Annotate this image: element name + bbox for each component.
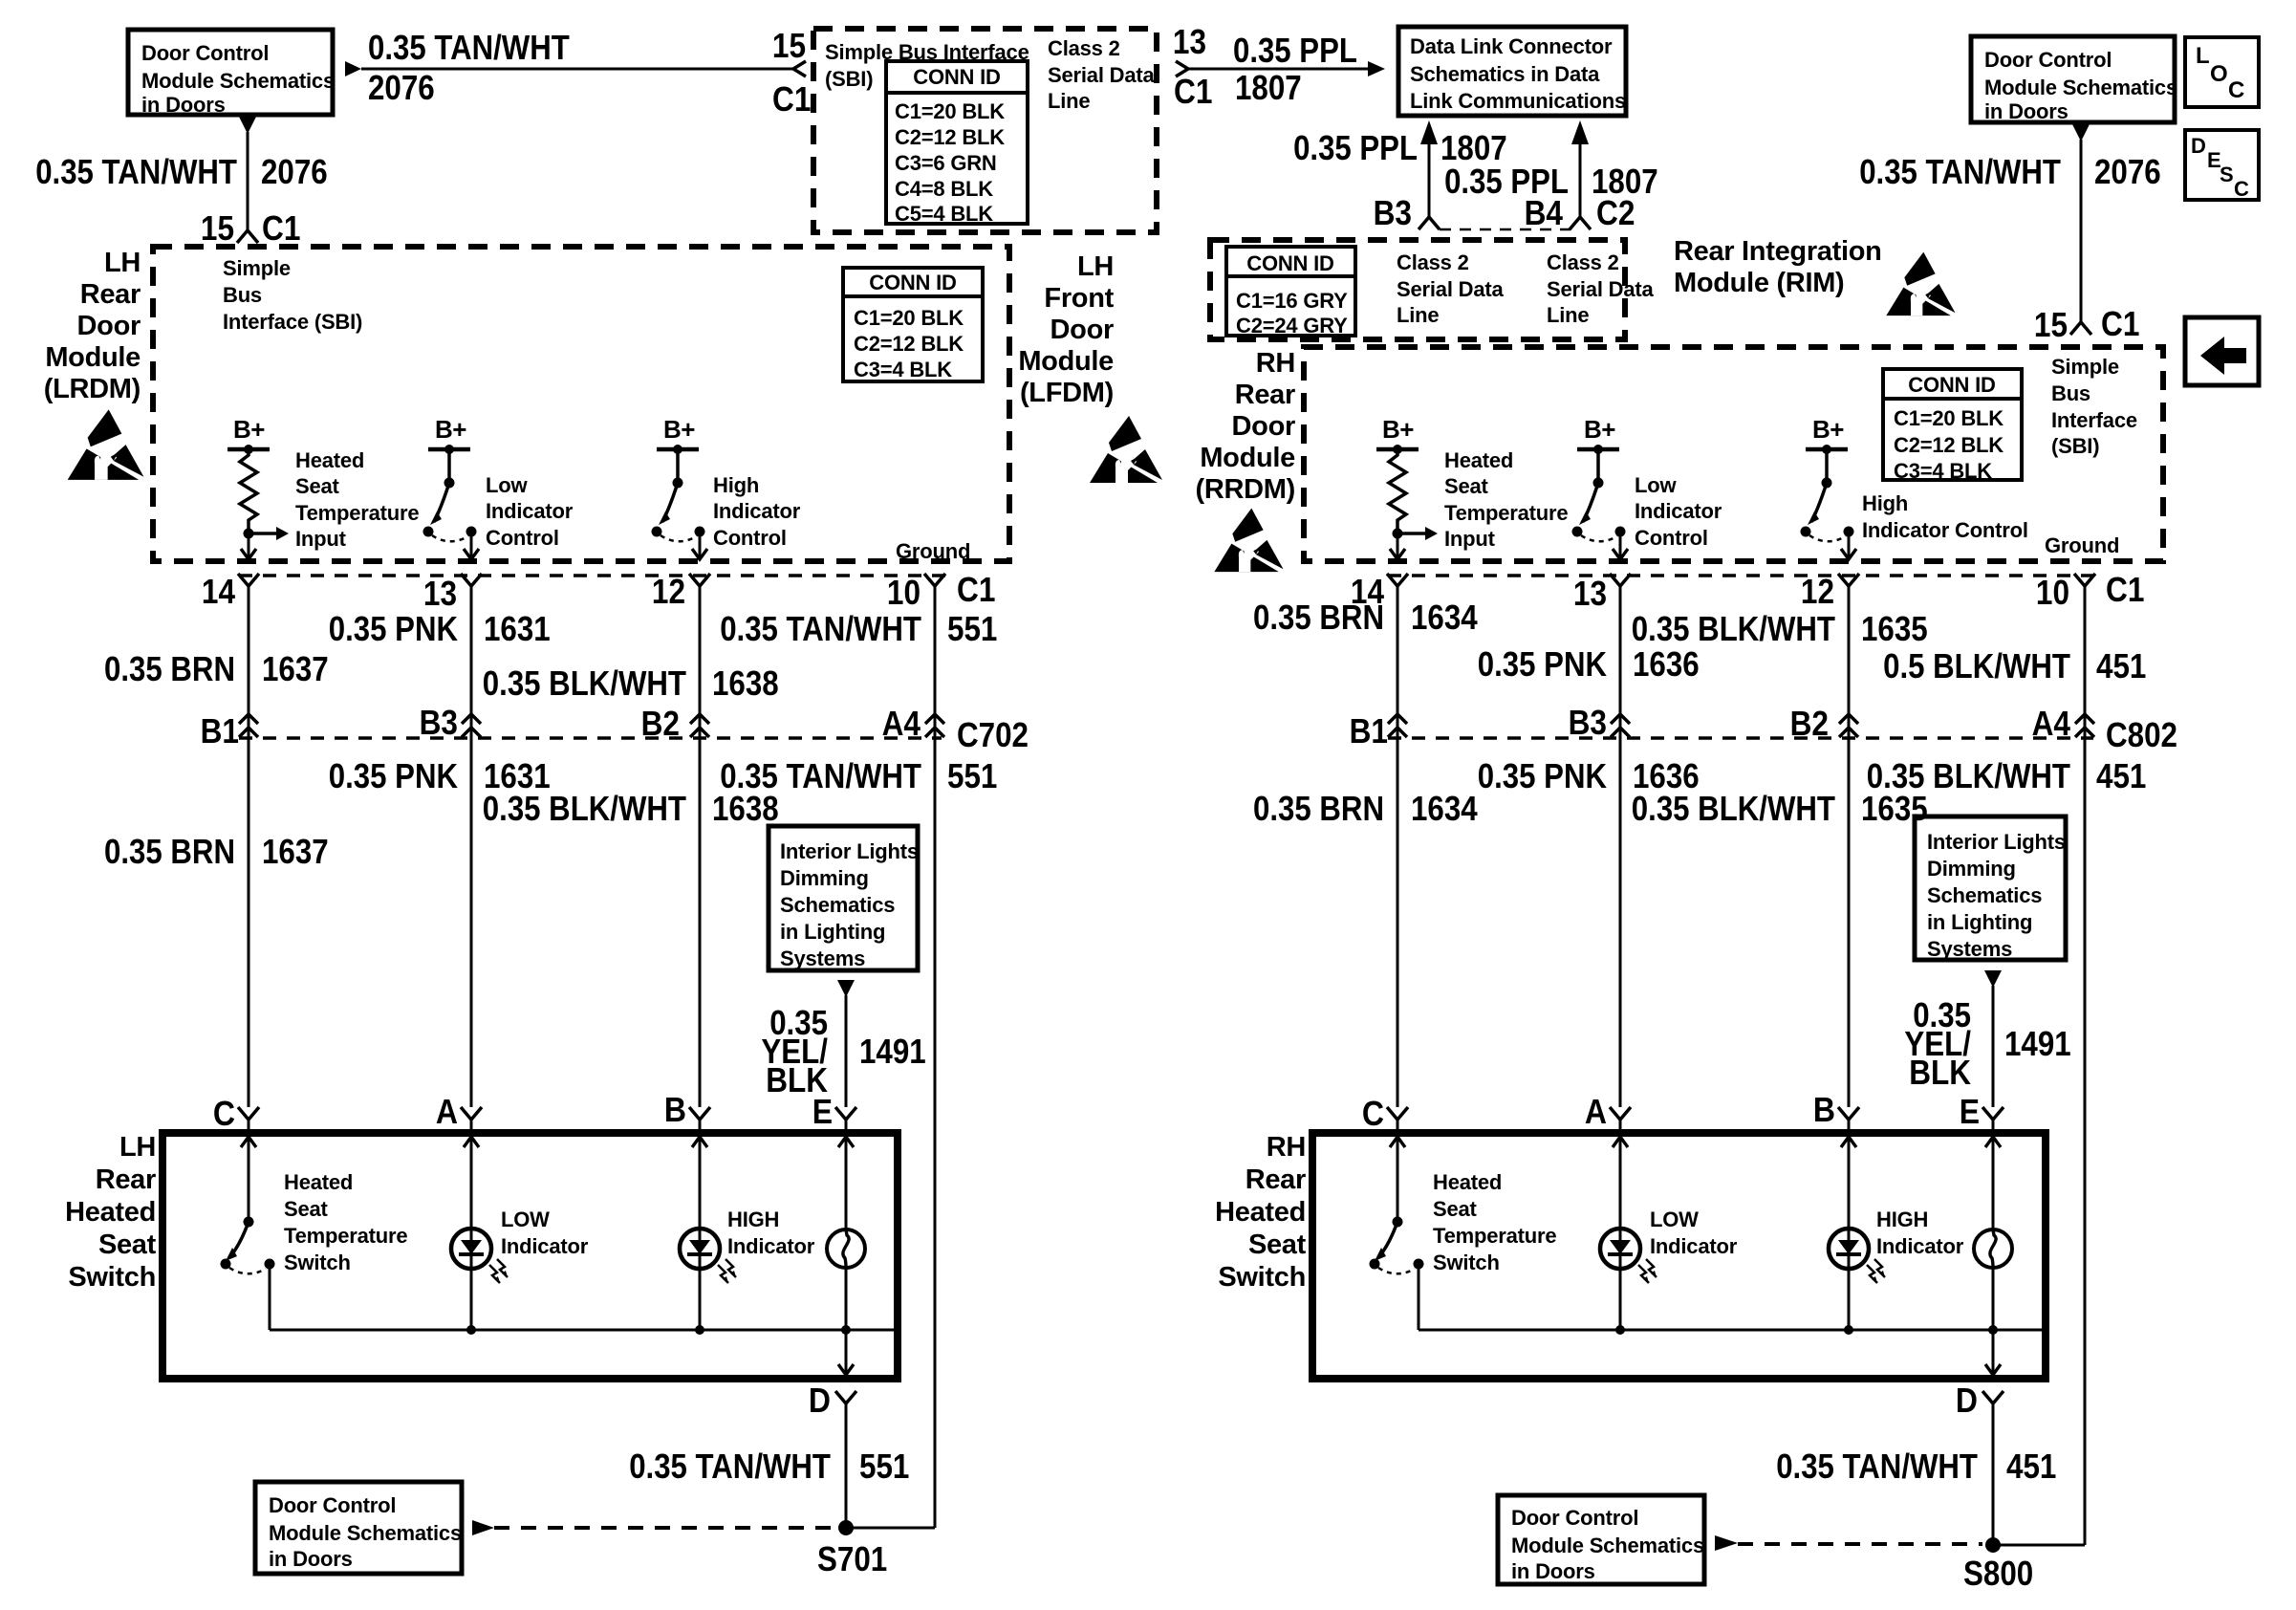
svg-text:0.35 TAN/WHT: 0.35 TAN/WHT [629, 1447, 831, 1486]
wire 1635 (pin12R to B) [1848, 586, 1851, 1107]
svg-text:(LRDM): (LRDM) [44, 374, 141, 404]
svg-text:0.35 PNK: 0.35 PNK [329, 756, 458, 795]
svg-text:(LFDM): (LFDM) [1020, 378, 1114, 408]
connector A4 (C702) [925, 714, 944, 724]
box: RH Rear Heated Seat Switch [1312, 1133, 2046, 1379]
connector pin 14 (RRDM C1) [1387, 574, 1408, 586]
LED HIGH indicator (LH) [699, 1229, 702, 1269]
svg-text:CONN ID: CONN ID [1908, 373, 1996, 397]
pin arrow A (into LH switch) [464, 1137, 479, 1147]
svg-text:in Doors: in Doors [1511, 1559, 1595, 1583]
connector line RIM (B3-B4) [1440, 228, 1570, 231]
svg-text:C2=24 GRY: C2=24 GRY [1236, 314, 1348, 337]
svg-text:Heated: Heated [1215, 1197, 1306, 1228]
svg-text:Temperature: Temperature [284, 1224, 407, 1248]
svg-text:C: C [2234, 177, 2249, 201]
connector pin 13 (LRDM C1) [461, 574, 482, 586]
icon box LOC [2185, 37, 2259, 107]
svg-text:Control: Control [1635, 526, 1708, 550]
svg-text:A: A [1585, 1092, 1607, 1131]
svg-text:Seat: Seat [1248, 1229, 1307, 1260]
svg-text:Door: Door [77, 311, 141, 341]
svg-text:Indicator: Indicator [727, 1234, 815, 1258]
svg-text:B: B [1813, 1090, 1835, 1129]
svg-text:451: 451 [2096, 646, 2146, 685]
LED LOW indicator (LH) [470, 1229, 473, 1269]
svg-text:O: O [2210, 61, 2228, 87]
svg-text:0.35 PPL: 0.35 PPL [1233, 31, 1357, 70]
svg-text:CONN ID: CONN ID [1246, 251, 1334, 275]
svg-text:Switch: Switch [68, 1262, 156, 1293]
connector C1 pin 15 female (LRDM) [237, 230, 258, 243]
connector E (RH switch) [1982, 1107, 2004, 1120]
svg-text:15: 15 [201, 208, 234, 248]
wire 1807 horizontal [1188, 68, 1369, 71]
svg-text:Seat: Seat [295, 474, 340, 498]
svg-text:(SBI): (SBI) [2051, 434, 2099, 458]
svg-text:10: 10 [887, 573, 921, 612]
pin arrow E (into RH switch) [1985, 1137, 2001, 1147]
svg-text:Door: Door [1051, 315, 1114, 345]
svg-text:C: C [1362, 1094, 1384, 1133]
svg-text:Indicator: Indicator [1876, 1234, 1964, 1258]
svg-text:0.35 BLK/WHT: 0.35 BLK/WHT [1632, 609, 1835, 648]
svg-text:B4: B4 [1525, 193, 1563, 232]
svg-text:0.35 TAN/WHT: 0.35 TAN/WHT [368, 28, 570, 67]
thermal protector (LH) [827, 1229, 865, 1268]
pin arrow C (into LH switch) [241, 1137, 256, 1147]
module: Rear Integration Module (RIM) dashed box [1210, 240, 1625, 339]
svg-text:Module Schematics: Module Schematics [141, 69, 335, 93]
pin arrow A (into RH switch) [1613, 1137, 1628, 1147]
svg-text:2076: 2076 [368, 68, 435, 107]
svg-text:Indicator Control: Indicator Control [1862, 518, 2028, 542]
svg-text:Class 2: Class 2 [1547, 250, 1619, 274]
svg-text:in Lighting: in Lighting [780, 920, 885, 944]
wire D drop (RH) [1992, 1330, 1995, 1378]
svg-text:C1: C1 [2101, 304, 2139, 343]
connector pin 13 (RRDM C1) [1610, 574, 1631, 586]
svg-text:S: S [2220, 163, 2233, 186]
svg-text:551: 551 [947, 609, 997, 648]
arrow into Data Link Connector box [1368, 61, 1385, 76]
svg-text:Interior Lights: Interior Lights [780, 839, 919, 863]
svg-text:Line: Line [1397, 303, 1439, 327]
table CONN ID (LRDM) [843, 268, 983, 381]
connector B3 (C702) [462, 714, 481, 724]
table CONN ID (SBI) [886, 61, 1028, 224]
svg-text:C3=4 BLK: C3=4 BLK [854, 358, 952, 381]
connector pin 12 (RRDM C1) [1838, 574, 1859, 586]
svg-text:LH: LH [1077, 251, 1114, 282]
svg-text:Rear: Rear [96, 1164, 156, 1195]
module: LH Rear Door Module (LRDM) dashed box [153, 247, 1009, 561]
svg-text:551: 551 [947, 756, 997, 795]
svg-text:Dimming: Dimming [780, 866, 869, 890]
svg-text:0.35 BLK/WHT: 0.35 BLK/WHT [483, 789, 686, 828]
svg-text:Serial Data: Serial Data [1048, 63, 1155, 87]
svg-text:(SBI): (SBI) [825, 67, 873, 91]
svg-text:B3: B3 [1374, 193, 1412, 232]
svg-text:C3=4 BLK: C3=4 BLK [1894, 459, 1992, 483]
wire switch bus (RH) [1419, 1329, 2042, 1332]
connector pin 12 (LRDM C1) [689, 574, 710, 586]
svg-text:B3: B3 [420, 703, 458, 742]
switch: heated seat temperature switch (LH) [244, 1217, 254, 1228]
box: Door Control Module Schematics in Doors (bottom left) [255, 1482, 462, 1574]
dashed wire to S701 [494, 1526, 835, 1530]
wire 451 (pin10R to S800) [2084, 586, 2087, 1545]
svg-text:1637: 1637 [262, 832, 329, 871]
connector B (LH switch) [689, 1107, 710, 1120]
connector line C1 (RRDM pins) [1388, 574, 2095, 577]
svg-text:B2: B2 [1790, 704, 1829, 743]
svg-text:CONN ID: CONN ID [869, 271, 957, 294]
wire 1638 (pin12 to B) [699, 586, 702, 1107]
svg-text:Dimming: Dimming [1927, 857, 2016, 881]
wire 1636 (pin13R to A) [1619, 586, 1622, 1107]
icon box left-arrow [2185, 317, 2259, 385]
svg-text:C2=12 BLK: C2=12 BLK [1894, 433, 2004, 457]
thermal protector (RH) [1974, 1229, 2012, 1268]
wire 1491 (left) [845, 995, 848, 1107]
svg-text:Door Control: Door Control [1511, 1506, 1638, 1530]
svg-text:C1: C1 [1174, 72, 1212, 111]
box: Interior Lights Dimming Schematics in Lighting Systems (left) [769, 826, 918, 970]
wire 1637 (pin14 to C) [248, 586, 250, 1107]
svg-text:Class 2: Class 2 [1048, 36, 1120, 60]
svg-text:Interior Lights: Interior Lights [1927, 830, 2066, 854]
wire C stub [248, 1120, 250, 1133]
svg-text:0.5 BLK/WHT: 0.5 BLK/WHT [1883, 646, 2070, 685]
svg-text:0.35 BLK/WHT: 0.35 BLK/WHT [483, 664, 686, 703]
svg-text:10: 10 [2036, 573, 2069, 612]
pin arrow B (into RH switch) [1841, 1137, 1856, 1147]
connector C1 pin 13 female (SBI right) [1176, 61, 1188, 76]
wire 1491 (right) [1992, 986, 1995, 1107]
svg-text:C1=20 BLK: C1=20 BLK [895, 99, 1005, 123]
svg-text:B3: B3 [1569, 703, 1607, 742]
svg-text:C1: C1 [772, 79, 811, 119]
svg-text:C2=12 BLK: C2=12 BLK [895, 125, 1005, 149]
table CONN ID (RIM) [1226, 247, 1355, 336]
svg-text:Seat: Seat [1433, 1197, 1478, 1221]
wire 451 return (right of RH switch) [1993, 1544, 2085, 1547]
svg-text:0.35 TAN/WHT: 0.35 TAN/WHT [1859, 152, 2061, 191]
svg-text:Bus: Bus [2051, 381, 2090, 405]
svg-text:B1: B1 [201, 711, 239, 751]
svg-text:Simple: Simple [223, 256, 291, 280]
svg-text:Heated: Heated [1444, 448, 1513, 472]
svg-text:0.35 BRN: 0.35 BRN [1253, 598, 1384, 637]
module: RH Rear Door Module (RRDM) dashed box [1304, 347, 2163, 561]
svg-text:C: C [2228, 77, 2244, 103]
ESD symbol (LRDM) [68, 409, 144, 480]
wire 551 to S701 [845, 1403, 848, 1528]
svg-text:B+: B+ [435, 415, 466, 444]
wire B stub (R) [1848, 1120, 1851, 1133]
svg-text:Input: Input [295, 527, 347, 551]
svg-text:Module Schematics: Module Schematics [1984, 76, 2177, 99]
wire 2076 vertical (right) [2080, 140, 2083, 321]
svg-text:Interface: Interface [2051, 408, 2137, 432]
svg-text:Switch: Switch [1433, 1251, 1500, 1274]
svg-text:1631: 1631 [484, 609, 551, 648]
arrow into wire from right Door Control box [2072, 124, 2090, 141]
svg-text:C3=6 GRN: C3=6 GRN [895, 151, 997, 175]
svg-text:Module: Module [1018, 346, 1114, 377]
wire switch bus (LH) [270, 1329, 894, 1332]
connector B3 (C802) [1611, 714, 1630, 724]
svg-text:B+: B+ [233, 415, 265, 444]
svg-text:Heated: Heated [65, 1197, 156, 1228]
svg-text:RH: RH [1256, 348, 1295, 379]
arrow from Interior Lights box (left) [837, 980, 855, 997]
box: Door Control Module Schematics in Doors (top right) [1971, 36, 2175, 122]
box: Door Control Module Schematics in Doors (bottom right) [1498, 1495, 1704, 1584]
wire C stub (R) [1397, 1120, 1399, 1133]
svg-text:B+: B+ [1382, 415, 1414, 444]
svg-text:(RRDM): (RRDM) [1195, 474, 1295, 505]
connector D (LH switch) [835, 1391, 856, 1403]
svg-text:D: D [809, 1381, 831, 1420]
connector E (LH switch) [835, 1107, 856, 1120]
svg-text:B: B [664, 1090, 686, 1129]
svg-text:LH: LH [119, 1132, 156, 1163]
svg-text:LOW: LOW [501, 1207, 550, 1231]
svg-text:13: 13 [423, 574, 457, 613]
svg-text:RH: RH [1267, 1132, 1306, 1163]
svg-text:0.35 BRN: 0.35 BRN [104, 832, 235, 871]
svg-text:1638: 1638 [712, 789, 779, 828]
svg-text:Line: Line [1547, 303, 1589, 327]
svg-text:C1: C1 [957, 570, 995, 609]
svg-text:0.35 PNK: 0.35 PNK [329, 609, 458, 648]
connector C1 pin 15 female (RRDM) [2070, 322, 2091, 335]
svg-text:Module (RIM): Module (RIM) [1674, 268, 1844, 298]
LED LOW indicator (RH) [1619, 1229, 1622, 1269]
ESD symbol (LFDM) [1090, 416, 1162, 483]
pin arrow C (into RH switch) [1390, 1137, 1405, 1147]
svg-text:0.35 PNK: 0.35 PNK [1478, 756, 1607, 795]
svg-text:1637: 1637 [262, 649, 329, 688]
connector pin 10 (LRDM C1) [924, 574, 945, 586]
switch: heated seat temperature switch (RH) [1393, 1217, 1403, 1228]
svg-text:Schematics: Schematics [1927, 883, 2042, 907]
svg-text:Bus: Bus [223, 283, 262, 307]
svg-text:15: 15 [2034, 305, 2068, 344]
svg-text:1491: 1491 [2004, 1024, 2071, 1063]
svg-text:Ground: Ground [896, 539, 970, 563]
svg-text:Class 2: Class 2 [1397, 250, 1469, 274]
box: Data Link Connector Schematics in Data Link Communications [1398, 27, 1626, 116]
connector B1 (C702) [239, 714, 258, 724]
wire 2076 horizontal (to LRDM C1 pin 15) [361, 68, 793, 71]
svg-text:LH: LH [104, 248, 141, 278]
svg-text:S701: S701 [817, 1539, 887, 1578]
svg-text:1635: 1635 [1861, 609, 1928, 648]
svg-text:451: 451 [2006, 1447, 2056, 1486]
svg-text:C1=20 BLK: C1=20 BLK [1894, 406, 2004, 430]
table CONN ID (RRDM) [1883, 369, 2022, 480]
svg-text:Heated: Heated [1433, 1170, 1502, 1194]
svg-text:Systems: Systems [780, 946, 865, 970]
svg-text:C2=12 BLK: C2=12 BLK [854, 332, 964, 356]
svg-text:C1=16 GRY: C1=16 GRY [1236, 289, 1348, 313]
box: Interior Lights Dimming Schematics in Lighting Systems (right) [1915, 816, 2066, 960]
svg-text:Front: Front [1044, 283, 1114, 314]
svg-text:B+: B+ [1812, 415, 1844, 444]
svg-text:C4=8 BLK: C4=8 BLK [895, 177, 993, 201]
svg-text:C1=20 BLK: C1=20 BLK [854, 306, 964, 330]
connector B4/C2 female (RIM) [1570, 217, 1591, 229]
svg-text:Interface (SBI): Interface (SBI) [223, 310, 362, 334]
connector C (RH switch) [1387, 1107, 1408, 1120]
svg-text:C: C [213, 1094, 235, 1133]
box: Door Control Module Schematics in Doors (top left) [128, 30, 333, 115]
svg-text:Seat: Seat [98, 1229, 157, 1260]
svg-text:Door: Door [1232, 411, 1295, 442]
connector B2 (C702) [690, 714, 709, 724]
svg-text:C1: C1 [2106, 570, 2144, 609]
svg-text:A4: A4 [882, 704, 921, 743]
svg-text:Door Control: Door Control [269, 1493, 396, 1517]
arrow from bottom right Door Control box [1715, 1535, 1738, 1551]
svg-text:Module Schematics: Module Schematics [1511, 1534, 1704, 1557]
svg-text:0.35 TAN/WHT: 0.35 TAN/WHT [1776, 1447, 1978, 1486]
svg-text:Serial Data: Serial Data [1397, 277, 1504, 301]
wire D drop (LH) [845, 1330, 848, 1378]
svg-text:0.35 PNK: 0.35 PNK [1478, 644, 1607, 684]
box: LH Rear Heated Seat Switch [162, 1133, 898, 1379]
svg-text:0.35 BRN: 0.35 BRN [1253, 789, 1384, 828]
svg-text:B1: B1 [1350, 711, 1388, 751]
svg-text:0.35 BLK/WHT: 0.35 BLK/WHT [1632, 789, 1835, 828]
svg-text:Door Control: Door Control [141, 41, 269, 65]
wire 2076 vertical (to LRDM pin 15) [247, 132, 249, 229]
connector D (RH switch) [1982, 1391, 2004, 1403]
svg-text:Rear: Rear [80, 279, 141, 310]
svg-text:14: 14 [202, 572, 235, 611]
wire A stub (R) [1619, 1120, 1622, 1133]
svg-text:Data Link Connector: Data Link Connector [1410, 34, 1613, 58]
svg-text:E: E [812, 1092, 833, 1131]
ESD symbol (RIM) [1886, 252, 1955, 316]
svg-text:Temperature: Temperature [1433, 1224, 1556, 1248]
svg-text:551: 551 [859, 1447, 909, 1486]
dashed wire to S800 [1738, 1542, 1982, 1546]
svg-text:Indicator: Indicator [486, 499, 574, 523]
svg-text:Temperature: Temperature [1444, 501, 1568, 525]
svg-text:Simple: Simple [2051, 355, 2119, 379]
svg-text:1491: 1491 [859, 1032, 926, 1071]
svg-text:E: E [1960, 1092, 1980, 1131]
svg-text:Low: Low [486, 473, 528, 497]
splice S800 [1985, 1537, 2001, 1553]
svg-text:HIGH: HIGH [727, 1207, 779, 1231]
connector B2 (C802) [1839, 714, 1858, 724]
svg-text:Seat: Seat [1444, 474, 1489, 498]
svg-text:2076: 2076 [2094, 152, 2161, 191]
pin arrow B (into LH switch) [692, 1137, 707, 1147]
pin arrow E (into LH switch) [838, 1137, 854, 1147]
svg-text:CONN ID: CONN ID [913, 65, 1001, 89]
svg-text:Switch: Switch [284, 1251, 351, 1274]
LED HIGH indicator (RH) [1848, 1229, 1851, 1269]
arrow into wire from Door Control box (down) [239, 117, 256, 134]
svg-text:in Doors: in Doors [141, 93, 226, 117]
connector B3 female (RIM) [1419, 217, 1440, 229]
wire E stub (R) [1992, 1120, 1995, 1133]
connector A (LH switch) [461, 1107, 482, 1120]
svg-text:B2: B2 [641, 704, 680, 743]
connector pin 10 (RRDM C1) [2074, 574, 2095, 586]
svg-text:Indicator: Indicator [1635, 499, 1722, 523]
connector C1 pin 15 female (SBI side) [793, 61, 806, 76]
svg-text:15: 15 [772, 26, 806, 65]
svg-text:High: High [713, 473, 759, 497]
connector A (RH switch) [1610, 1107, 1631, 1120]
svg-text:C2: C2 [1596, 193, 1635, 232]
svg-text:1638: 1638 [712, 664, 779, 703]
svg-text:Heated: Heated [295, 448, 364, 472]
svg-text:1634: 1634 [1411, 598, 1478, 637]
wire 551 (pin10 to S701) [934, 586, 937, 1528]
wire 1807 B3 vertical [1420, 120, 1438, 144]
svg-text:Door Control: Door Control [1984, 48, 2112, 72]
svg-text:Schematics in Data: Schematics in Data [1410, 62, 1600, 86]
svg-text:Ground: Ground [2045, 533, 2119, 557]
splice S701 [838, 1520, 854, 1535]
svg-text:Temperature: Temperature [295, 501, 419, 525]
wire E stub [845, 1120, 848, 1133]
svg-text:1635: 1635 [1861, 789, 1928, 828]
svg-text:0.35 TAN/WHT: 0.35 TAN/WHT [35, 152, 237, 191]
svg-text:Heated: Heated [284, 1170, 353, 1194]
svg-text:0.35 PPL: 0.35 PPL [1293, 128, 1418, 167]
svg-text:Serial Data: Serial Data [1547, 277, 1654, 301]
connector C (LH switch) [238, 1107, 259, 1120]
svg-text:Switch: Switch [1218, 1262, 1306, 1293]
svg-text:in Doors: in Doors [269, 1547, 353, 1571]
wire A stub [470, 1120, 473, 1133]
svg-text:Systems: Systems [1927, 937, 2012, 961]
svg-text:Line: Line [1048, 89, 1090, 113]
connector line C802 [1388, 736, 2093, 740]
svg-text:Low: Low [1635, 473, 1677, 497]
connector B (RH switch) [1838, 1107, 1859, 1120]
svg-text:Control: Control [713, 526, 787, 550]
svg-text:0.35 BRN: 0.35 BRN [104, 649, 235, 688]
svg-text:Indicator: Indicator [713, 499, 801, 523]
svg-text:High: High [1862, 491, 1908, 515]
arrow from bottom Door Control box (left) [472, 1520, 494, 1535]
svg-text:C1: C1 [262, 208, 300, 248]
arrow from Interior Lights box (right) [1984, 970, 2002, 988]
svg-text:A: A [436, 1092, 458, 1131]
svg-text:C802: C802 [2106, 715, 2177, 754]
icon box DESC [2185, 130, 2259, 200]
svg-text:Link Communications: Link Communications [1410, 89, 1626, 113]
ESD symbol (RRDM) [1214, 509, 1283, 573]
svg-text:Schematics: Schematics [780, 893, 895, 917]
svg-text:in Lighting: in Lighting [1927, 910, 2032, 934]
svg-text:Rear: Rear [1245, 1164, 1306, 1195]
svg-text:13: 13 [1573, 574, 1607, 613]
svg-text:BLK: BLK [1909, 1053, 1971, 1092]
svg-text:Module: Module [1200, 443, 1295, 473]
svg-text:C702: C702 [957, 715, 1029, 754]
